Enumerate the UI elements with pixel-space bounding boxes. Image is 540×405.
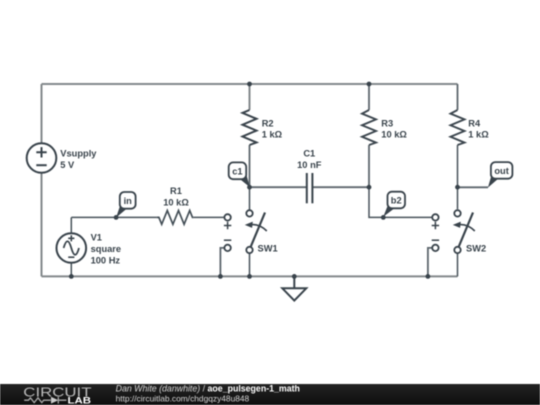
svg-text:b2: b2 <box>391 196 402 206</box>
label V1 name/value <box>91 233 122 266</box>
svg-text:square: square <box>91 244 122 254</box>
svg-text:http://circuitlab.com/chdgqzy4: http://circuitlab.com/chdgqzy48u848 <box>116 394 250 404</box>
label R3 name/value <box>381 118 407 139</box>
junction SW2 minus rail <box>426 274 431 279</box>
svg-text:10 nF: 10 nF <box>297 160 322 170</box>
wire R2 column top <box>249 84 251 110</box>
junction SW1 bottom rail <box>247 274 252 279</box>
wire top rail <box>42 83 458 85</box>
voltage source V1 <box>57 233 87 263</box>
svg-text:R3: R3 <box>381 118 393 128</box>
resistor R3 <box>362 110 376 145</box>
junction ground rail <box>292 274 297 279</box>
wire R1 to SW1 plus <box>193 216 224 218</box>
footer bar <box>0 384 540 405</box>
wire R3 junction to SW2 control (b2 net) <box>369 187 432 217</box>
wire out stub <box>458 186 489 188</box>
switch SW1 <box>245 210 267 253</box>
node c1 <box>229 162 250 187</box>
wire bottom rail <box>42 275 458 277</box>
wire V1 bottom <box>70 263 72 276</box>
wire V1 top to in wire <box>70 217 72 233</box>
junction SW1 minus rail <box>218 274 223 279</box>
footer credit line <box>116 384 300 404</box>
wire left rail upper (Vsupply top) <box>41 84 43 143</box>
wires: dark class <box>71 145 457 276</box>
wire left rail lower (Vsupply bottom) <box>41 173 43 277</box>
svg-text:V1: V1 <box>91 233 102 243</box>
label R1 name/value <box>163 186 189 207</box>
voltage source Vsupply <box>27 143 57 173</box>
wire C1 right <box>312 186 369 188</box>
svg-text:R1: R1 <box>170 186 182 196</box>
junction out / R4 <box>455 185 460 190</box>
switch SW2 control terminals <box>432 214 439 251</box>
resistor R1 <box>157 211 194 225</box>
wire R2 column bottom lead <box>249 145 251 188</box>
junction R3 / C1 <box>367 185 372 190</box>
svg-text:100 Hz: 100 Hz <box>91 256 121 266</box>
junction b2 wire <box>381 215 386 220</box>
wires: light class <box>42 84 458 276</box>
wire SW1 minus to rail <box>220 248 224 277</box>
wire R4 column top <box>457 84 459 110</box>
resistor R2 <box>243 110 257 145</box>
junction c1 <box>247 185 252 190</box>
junction V1 bottom rail <box>69 274 74 279</box>
node out <box>488 162 513 188</box>
svg-text:LAB: LAB <box>68 396 92 405</box>
label R2 name/value <box>262 118 283 139</box>
wire C1 left <box>250 186 307 188</box>
svg-text:10 kΩ: 10 kΩ <box>381 130 407 140</box>
capacitor C1 <box>307 173 313 203</box>
switch SW2 <box>453 210 475 253</box>
svg-text:R4: R4 <box>468 118 481 128</box>
ground <box>282 276 306 300</box>
svg-text:1 kΩ: 1 kΩ <box>262 130 283 140</box>
wire SW1 bottom to rail <box>249 253 251 276</box>
wires: medium class <box>220 84 488 276</box>
svg-text:SW2: SW2 <box>466 244 486 254</box>
wire c1 column to SW1 <box>249 187 251 210</box>
logo CIRCUIT LAB <box>23 385 92 405</box>
wire SW2 minus to rail <box>428 248 432 277</box>
svg-text:in: in <box>124 196 133 206</box>
svg-text:10 kΩ: 10 kΩ <box>163 197 189 207</box>
wire R3 column bottom lead <box>368 145 370 187</box>
junction in wire <box>114 215 119 220</box>
svg-text:R2: R2 <box>262 118 274 128</box>
junction top rail / R3 <box>367 82 372 87</box>
svg-text:1 kΩ: 1 kΩ <box>468 130 489 140</box>
label R4 name/value <box>468 118 489 139</box>
wire R4 column mid (out net) <box>457 145 459 209</box>
wire in to R1 <box>71 216 156 218</box>
junction top rail / R2 <box>247 82 252 87</box>
svg-text:Vsupply: Vsupply <box>60 148 97 158</box>
node in <box>116 192 136 218</box>
svg-text:5 V: 5 V <box>60 160 75 170</box>
switch SW1 control terminals <box>224 214 231 251</box>
svg-text:out: out <box>494 166 508 176</box>
resistor R4 <box>451 110 465 145</box>
label C1 name/value <box>297 149 322 170</box>
svg-text:SW1: SW1 <box>258 244 278 254</box>
node b2 <box>383 192 405 217</box>
svg-text:C1: C1 <box>303 149 315 159</box>
wire SW2 bottom to rail <box>457 253 459 276</box>
svg-text:Dan White (danwhite) / aoe_pul: Dan White (danwhite) / aoe_pulsegen-1_ma… <box>116 384 300 394</box>
label Vsupply name/value <box>60 148 97 170</box>
svg-text:c1: c1 <box>232 166 242 176</box>
wire R3 column top <box>368 84 370 110</box>
